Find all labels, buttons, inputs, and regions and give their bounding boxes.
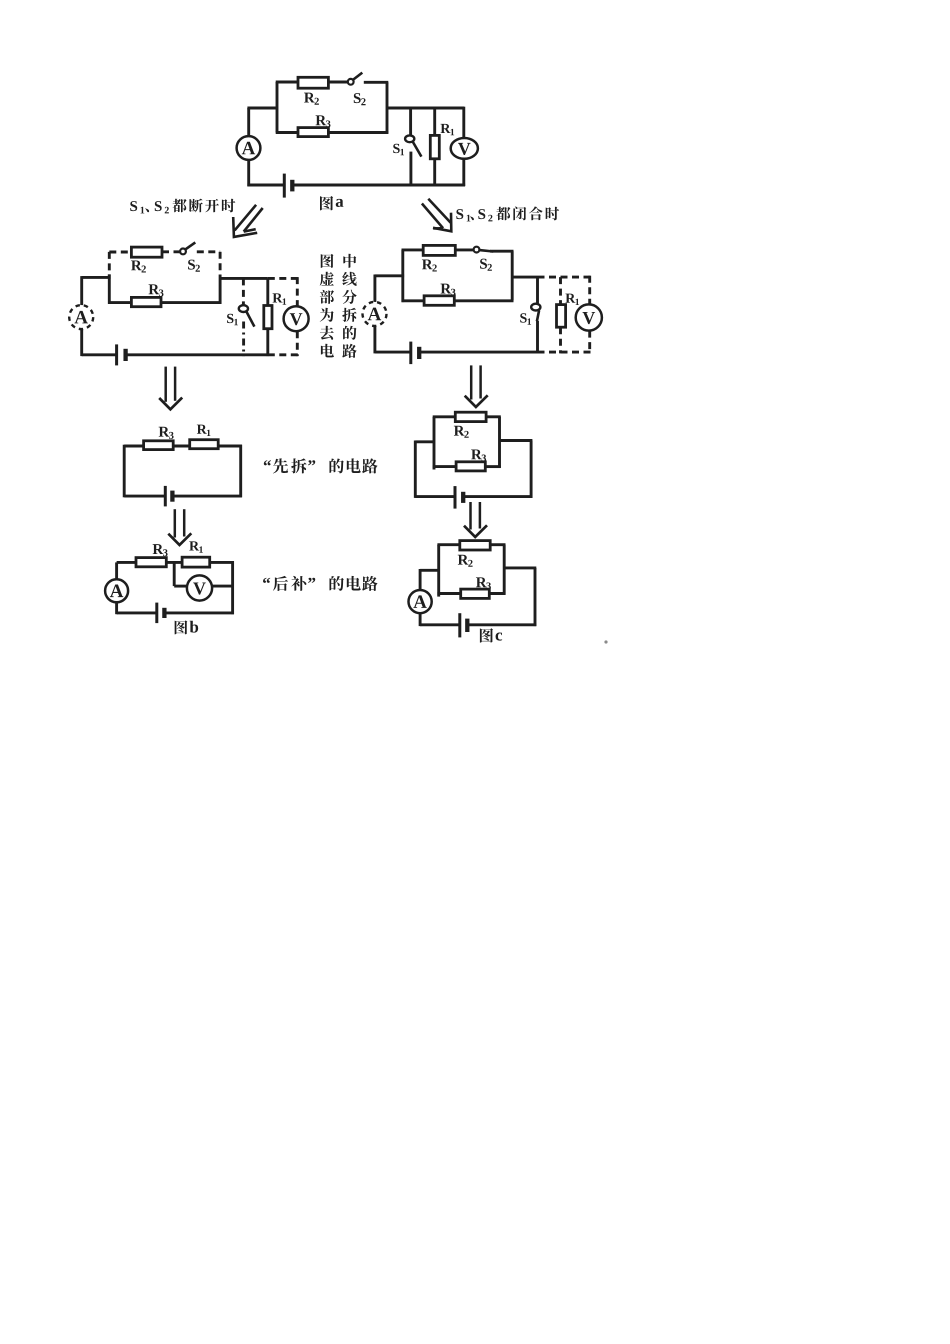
wire: [419, 613, 422, 626]
label R1: [273, 293, 283, 302]
label "re-added" circuit: [263, 578, 270, 583]
label R2: [458, 555, 469, 565]
resistor R3: [144, 441, 174, 450]
wire: [402, 248, 424, 251]
wire: [164, 611, 234, 614]
switch S2 (open): [348, 79, 354, 85]
label R2: [304, 93, 315, 103]
wire: [387, 107, 464, 110]
wire: [401, 250, 404, 302]
battery: [458, 613, 461, 637]
wire: [437, 592, 460, 595]
wire: [415, 440, 434, 443]
arrow (down): [174, 509, 177, 537]
resistor R2: [423, 245, 455, 255]
wire (dashed): [162, 250, 180, 253]
ammeter A (dashed, removed): [69, 305, 93, 329]
wire: [117, 561, 136, 564]
wire: [373, 326, 376, 354]
wire (dashed, removed branch): [108, 252, 111, 276]
resistor R1: [264, 306, 272, 329]
wire: [247, 108, 250, 136]
wire: [108, 301, 131, 304]
wire: [276, 131, 298, 134]
battery: [283, 174, 286, 198]
wire: [212, 585, 234, 588]
wire: [409, 108, 412, 135]
label R1: [189, 541, 199, 550]
wire: [455, 248, 473, 251]
wire: [386, 82, 389, 134]
wire: [437, 543, 459, 546]
wire: [415, 495, 455, 498]
wire: [490, 543, 505, 546]
wire: [266, 278, 269, 305]
wire: [500, 439, 533, 442]
switch S2 (closed): [474, 247, 480, 253]
arrow (down): [470, 365, 473, 399]
resistor R1: [430, 135, 439, 158]
wire (dashed): [197, 250, 220, 253]
label S1: [227, 314, 233, 323]
wire (dashed): [559, 327, 562, 353]
label R3: [316, 115, 327, 125]
wire (dash-dot): [242, 322, 245, 357]
label S1,S2 both closed: [456, 209, 463, 219]
label R3: [159, 427, 170, 437]
wire: [82, 353, 117, 356]
wire: [536, 321, 539, 354]
resistor R3: [298, 128, 328, 137]
wire (dashed): [268, 277, 299, 280]
wire: [276, 81, 298, 84]
wire: [115, 602, 118, 614]
wire: [292, 184, 465, 187]
voltmeter V: [451, 138, 478, 159]
wire: [247, 107, 277, 110]
label R3: [153, 544, 164, 554]
label 图c: [480, 628, 493, 642]
wire: [124, 495, 165, 498]
wire: [266, 329, 269, 356]
resistor R3: [424, 296, 454, 306]
wire: [437, 545, 440, 597]
battery: [115, 344, 118, 365]
ammeter A: [105, 579, 128, 602]
label R3: [441, 284, 452, 294]
wire: [218, 445, 242, 448]
battery: [164, 486, 167, 507]
wire: [126, 353, 268, 356]
wire: [123, 445, 126, 498]
wire: [276, 82, 279, 133]
wire: [80, 276, 83, 305]
label S1,S2 both open: [130, 201, 137, 211]
label 图b: [175, 620, 188, 634]
voltmeter V (removed): [284, 306, 309, 331]
label R1: [441, 124, 451, 133]
switch S1 (open): [405, 135, 414, 142]
wire: [173, 445, 190, 448]
voltmeter V: [187, 575, 212, 600]
wire: [173, 562, 176, 586]
wire: [462, 159, 465, 186]
wire: [463, 495, 532, 498]
switch S1 (closed): [531, 304, 540, 311]
resistor R2: [455, 412, 486, 421]
label R2: [422, 259, 433, 269]
wire: [375, 274, 404, 277]
resistor R1: [190, 440, 219, 449]
label R3: [471, 449, 482, 459]
wire: [80, 329, 83, 356]
arrow (down): [164, 367, 167, 402]
wire: [534, 568, 537, 626]
wire: [364, 81, 389, 84]
resistor R3: [131, 297, 161, 306]
battery: [409, 342, 412, 365]
wire: [161, 301, 221, 304]
wire: [512, 276, 537, 279]
wire: [166, 561, 182, 564]
wire (dashed): [559, 277, 562, 305]
wire: [419, 351, 537, 354]
wire: [108, 274, 111, 304]
ammeter A: [409, 590, 432, 613]
arrow (down-left): [235, 205, 257, 231]
label R1: [565, 294, 575, 303]
wire (dashed): [296, 277, 299, 306]
resistor R2: [298, 77, 328, 88]
wire: [498, 417, 501, 468]
wire: [174, 585, 187, 588]
wire: [172, 495, 242, 498]
battery: [155, 603, 158, 624]
label S2: [354, 93, 361, 103]
resistor R3: [456, 462, 485, 471]
wire (dashed): [268, 353, 299, 356]
battery: [454, 486, 457, 509]
label R2: [454, 426, 465, 436]
ammeter A (dashed, removed): [363, 302, 387, 326]
wire: [375, 351, 411, 354]
label S2: [480, 259, 487, 269]
label R2: [131, 260, 142, 270]
wire: [82, 276, 111, 279]
wire: [467, 623, 536, 626]
wire: [373, 275, 376, 303]
wire: [115, 562, 118, 579]
wire: [490, 250, 514, 253]
wire: [409, 152, 412, 186]
wire (dashed): [588, 331, 591, 354]
wire: [530, 441, 533, 498]
wire: [328, 81, 347, 84]
resistor R1 (removed): [557, 305, 566, 328]
resistor R1: [182, 557, 210, 567]
wire: [210, 561, 234, 564]
label S1: [393, 144, 399, 153]
wire: [220, 277, 268, 280]
switch S2 (open): [180, 249, 186, 255]
switch S1 (open): [239, 305, 248, 312]
wire: [239, 445, 242, 498]
resistor R3: [461, 589, 490, 598]
stray dot: [604, 640, 607, 643]
arrow (down): [469, 502, 472, 530]
resistor R2: [131, 247, 162, 257]
label S1: [520, 313, 526, 322]
wire (dashed): [242, 278, 245, 305]
wire: [419, 569, 422, 590]
wire (dashed): [538, 351, 591, 354]
resistor R2: [460, 541, 490, 550]
wire: [247, 184, 284, 187]
wire: [433, 159, 436, 186]
wire: [402, 299, 425, 302]
wire: [124, 445, 143, 448]
label S2: [188, 260, 195, 270]
wire: [489, 592, 505, 595]
label R1: [197, 425, 207, 434]
wire (dashed): [588, 276, 591, 305]
wire: [454, 299, 513, 302]
wire: [433, 465, 456, 468]
wire (dashed): [538, 276, 591, 279]
wire: [219, 275, 222, 304]
wire: [462, 107, 465, 139]
wire (dashed): [296, 331, 299, 356]
wire: [485, 465, 501, 468]
wire: [247, 160, 250, 187]
wire: [117, 611, 157, 614]
wire: [414, 441, 417, 498]
wire: [328, 131, 388, 134]
wire: [504, 566, 536, 569]
resistor R3: [136, 558, 166, 567]
wire: [536, 277, 539, 304]
wire: [420, 569, 440, 572]
note: dashed parts are removed circuit: [321, 254, 334, 268]
wire: [503, 545, 506, 595]
label R3: [149, 284, 160, 294]
arrow (down-right): [428, 199, 450, 223]
wire: [486, 415, 501, 418]
label R3: [476, 577, 487, 587]
label "first-removed" circuit: [264, 460, 271, 465]
wire: [433, 417, 436, 470]
wire: [420, 623, 460, 626]
wire: [231, 561, 234, 614]
voltmeter V (removed): [576, 304, 602, 330]
wire: [433, 108, 436, 135]
wire: [511, 251, 514, 300]
ammeter A: [237, 136, 261, 160]
wire: [433, 415, 456, 418]
label 图a: [320, 196, 333, 210]
